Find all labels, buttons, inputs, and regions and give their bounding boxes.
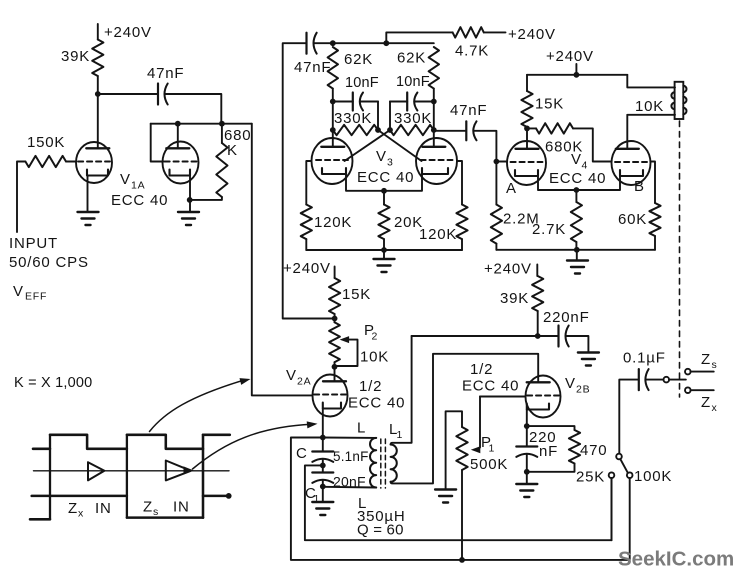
svg-text:10nF: 10nF xyxy=(345,75,379,91)
relay coil 10K xyxy=(675,82,684,119)
wire outer feedback loop xyxy=(291,438,630,560)
wire 39K to plate rail xyxy=(537,311,539,336)
resistor 330K right xyxy=(390,125,434,135)
arrowhead at Zs buffer xyxy=(184,466,194,474)
ground tank xyxy=(312,501,333,503)
svg-text:+240V: +240V xyxy=(546,48,594,65)
svg-text:2.7K: 2.7K xyxy=(532,221,566,238)
svg-text:B: B xyxy=(634,178,645,195)
wire V1B cathode lead xyxy=(189,176,191,213)
svg-text:150K: 150K xyxy=(27,134,65,151)
wiper arrow P2 xyxy=(340,336,350,343)
svg-text:10K: 10K xyxy=(360,349,389,366)
cathode V1B xyxy=(170,170,191,176)
wire P1 top to ground xyxy=(446,411,462,489)
wire V4B grid out xyxy=(651,162,655,204)
wire cross-couple to right grid xyxy=(378,130,422,161)
svg-text:A: A xyxy=(506,180,517,197)
resistor 20K xyxy=(378,205,389,240)
wire node to C xyxy=(322,438,324,452)
node 330K left end xyxy=(330,127,336,133)
arrow curve to V2A cathode xyxy=(193,424,312,469)
svg-text:+240V: +240V xyxy=(104,24,152,41)
wire V4A plate lead xyxy=(526,128,528,149)
terminal output pole xyxy=(664,377,670,383)
svg-text:2: 2 xyxy=(372,331,379,343)
wire grid tie of V1B xyxy=(151,124,164,162)
wire V3 top rail xyxy=(333,42,434,44)
wire cathode node to 20K xyxy=(383,191,385,205)
capacitor 47nF (V3 to V4) xyxy=(465,121,467,140)
svg-text:ECC 40: ECC 40 xyxy=(111,192,168,209)
node 4.7K tap xyxy=(383,40,389,46)
wire 220nF to ground xyxy=(566,336,589,353)
wire C to C1 xyxy=(322,459,324,473)
node plate V1A junction xyxy=(95,91,101,97)
ground P1 xyxy=(435,488,456,490)
svg-text:60K: 60K xyxy=(618,211,647,228)
wire cathode to 470 xyxy=(527,426,575,430)
wire plate node to 680K xyxy=(527,127,536,129)
resistor 39K (V1A plate load) xyxy=(92,40,103,77)
capacitor 0.1uF xyxy=(638,369,640,390)
svg-text:15K: 15K xyxy=(535,96,564,113)
resistor 15K (V4) xyxy=(521,91,532,127)
arrow curve to V2A grid xyxy=(150,380,244,431)
cathode V2B xyxy=(527,404,549,410)
wire left plate drop xyxy=(332,102,334,131)
svg-text:1: 1 xyxy=(489,443,496,455)
svg-text:+240V: +240V xyxy=(508,26,556,43)
node 62K left top xyxy=(330,40,336,46)
svg-text:K: K xyxy=(227,142,238,159)
resistor 120K left xyxy=(301,205,312,240)
svg-text:INPUT: INPUT xyxy=(9,235,58,252)
wire plate node to C 47nF xyxy=(98,93,158,95)
svg-text:100K: 100K xyxy=(634,468,672,485)
svg-text:1/2: 1/2 xyxy=(359,378,382,395)
svg-text:Z: Z xyxy=(701,351,711,368)
wire 62K-left to plate node xyxy=(332,89,334,102)
wire cap to ground node xyxy=(526,454,528,472)
terminal switch pole S1 xyxy=(616,454,622,460)
svg-text:ECC 40: ECC 40 xyxy=(348,395,405,412)
capacitor 220nF (cathode) xyxy=(516,445,537,447)
resistor 680K (V4) xyxy=(536,123,573,133)
resistor 62K right xyxy=(429,47,439,89)
wire relay feed top xyxy=(627,75,675,88)
wire V4 bottom rail xyxy=(496,249,655,251)
resistor 4.7K xyxy=(453,27,484,37)
svg-text:L: L xyxy=(357,420,366,437)
svg-text:10K: 10K xyxy=(635,98,664,115)
terminal Zs contact xyxy=(685,369,691,375)
wire plate node down to V1A plate xyxy=(97,94,99,148)
wire 25K contact drop xyxy=(611,478,613,540)
ground V1B xyxy=(178,211,199,213)
svg-text:V: V xyxy=(13,283,24,300)
svg-text:V: V xyxy=(120,171,131,188)
svg-text:470: 470 xyxy=(580,442,607,459)
resistor 39K (V2B) xyxy=(532,276,543,311)
svg-text:1: 1 xyxy=(314,493,321,505)
svg-text:Z: Z xyxy=(68,500,78,517)
capacitor 47nF (V1 coupling) xyxy=(157,84,159,105)
svg-text:V: V xyxy=(376,148,387,165)
wire V4B plate lead xyxy=(626,115,628,149)
tube V3 left triode xyxy=(312,138,353,184)
svg-text:IN: IN xyxy=(173,499,190,516)
wire output riser xyxy=(619,380,638,454)
tube V2B half triode xyxy=(526,376,561,418)
wire relay coil bottom to plate xyxy=(627,114,675,116)
cathode V2A xyxy=(323,403,341,409)
svg-text:C: C xyxy=(296,445,308,462)
wire V1B out to V2A grid xyxy=(252,124,312,396)
svg-text:V: V xyxy=(565,375,576,392)
svg-text:SeekIC.com: SeekIC.com xyxy=(618,548,734,571)
resistor 2.7K xyxy=(571,202,582,242)
node V3 left plate/10nF xyxy=(330,99,336,105)
node P1 bottom on loop xyxy=(459,557,465,563)
capacitor 47nF (feedback, top left) xyxy=(305,33,307,54)
wire P1 bottom xyxy=(461,470,463,560)
svg-text:15K: 15K xyxy=(342,286,371,303)
wire V2A cathode lead xyxy=(322,409,324,438)
wire Zs lead xyxy=(691,371,714,373)
wire V4 +240V rail xyxy=(527,74,627,76)
tube V4A triode xyxy=(507,141,546,185)
svg-text:47nF: 47nF xyxy=(147,65,184,82)
node V1B plate junction xyxy=(175,121,181,127)
resistor 62K left xyxy=(328,47,338,89)
wire right plate drop xyxy=(433,102,435,131)
resistor 150K (input) xyxy=(25,156,66,167)
ground V2B cathode xyxy=(516,483,537,485)
node 330K right end xyxy=(431,127,437,133)
cathode V4B xyxy=(620,170,643,176)
node V4A plate xyxy=(524,125,530,131)
waveform lower square wave xyxy=(32,496,228,518)
wire 680K bottom to cathode node xyxy=(190,197,222,200)
node V3 cathodes xyxy=(381,188,387,194)
svg-text:330K: 330K xyxy=(394,110,432,127)
svg-text:2A: 2A xyxy=(297,376,311,388)
ground V4 xyxy=(567,259,588,261)
wire 15K to plate node xyxy=(526,127,528,128)
inductor L1 xyxy=(391,445,397,482)
capacitor 220nF (decoupling) xyxy=(557,326,559,347)
node V2B cathode xyxy=(524,423,530,429)
wire V4A cathode xyxy=(538,176,576,190)
resistor 120K right xyxy=(456,205,467,240)
resistor 60K xyxy=(649,203,660,236)
svg-text:K = X 1,000: K = X 1,000 xyxy=(14,375,92,391)
wire L1 top to 39K rail xyxy=(391,336,412,445)
ground V1A xyxy=(78,211,99,213)
svg-text:39K: 39K xyxy=(61,48,90,65)
wire V3 left grid out xyxy=(306,161,311,205)
wire V3 bottom rail xyxy=(306,249,462,251)
wire cathode to cap xyxy=(526,426,528,446)
wire L1 bottom to V2B plate xyxy=(391,354,539,484)
wire to V3 ground xyxy=(383,250,385,259)
wire V4B cathode xyxy=(576,176,620,190)
node P2 bottom / V2A plate xyxy=(332,364,338,370)
terminal 100K contact xyxy=(627,472,633,478)
wire P2 top lead xyxy=(334,319,336,323)
terminal Zx contact xyxy=(685,387,691,393)
node 330K right / 10nF junction xyxy=(387,127,393,133)
svg-text:47nF: 47nF xyxy=(294,59,331,76)
wire rail to 15K xyxy=(526,75,528,91)
svg-text:50/60 CPS: 50/60 CPS xyxy=(9,254,89,271)
ground V3 xyxy=(374,258,395,260)
wire V3 right cathode xyxy=(384,174,422,191)
resistor 2.2M xyxy=(491,205,502,244)
cathode V3 left xyxy=(322,168,346,174)
wire 47nF to V1B top rail xyxy=(165,94,222,124)
wire V3 right plate lead xyxy=(433,130,435,147)
svg-text:Q = 60: Q = 60 xyxy=(357,522,404,539)
wire V1A cathode to ground xyxy=(87,176,89,213)
svg-text:0.1µF: 0.1µF xyxy=(623,350,666,367)
wire V4 ground lead xyxy=(576,250,578,261)
svg-text:62K: 62K xyxy=(344,51,373,68)
node L bottom xyxy=(320,484,326,490)
capacitor 10nF right xyxy=(406,93,408,111)
wire 680K to V4B grid xyxy=(573,128,611,161)
capacitor C1 20nF xyxy=(312,471,333,473)
svg-text:47nF: 47nF xyxy=(450,102,487,119)
wire output blade xyxy=(669,379,686,381)
wire rail to 220nF xyxy=(538,335,559,337)
svg-text:120K: 120K xyxy=(419,226,457,243)
potentiometer P1 500K body xyxy=(456,427,467,470)
cathode V4A xyxy=(515,170,538,176)
svg-text:39K: 39K xyxy=(500,290,529,307)
node V4A grid xyxy=(494,159,500,165)
svg-text:2B: 2B xyxy=(576,384,590,396)
svg-text:IN: IN xyxy=(95,500,112,517)
node V1B cathode junction xyxy=(187,197,193,203)
node V2B cathode ground xyxy=(524,469,530,475)
capacitor C 5.1nF xyxy=(312,450,333,452)
tube V4B triode xyxy=(612,141,651,185)
svg-text:x: x xyxy=(78,508,84,520)
wire V3 right grid out xyxy=(457,161,462,205)
resistor 330K left xyxy=(333,125,378,135)
ground 220nF decoupling xyxy=(578,351,599,353)
wire +240V supply stub to R 39K xyxy=(97,24,99,40)
svg-text:20K: 20K xyxy=(394,214,423,231)
svg-text:25K: 25K xyxy=(576,469,605,486)
waveform gate box verticals xyxy=(49,435,51,520)
wire input lead xyxy=(17,162,25,233)
wire C1 bottom to ground xyxy=(322,480,324,502)
core dashes xyxy=(380,439,382,488)
wire 15K to P2 node xyxy=(334,314,336,319)
svg-text:V: V xyxy=(286,367,297,384)
wire plate rail to L1 xyxy=(412,335,538,337)
buffer triangle Zs xyxy=(166,461,191,481)
wire 4.7K to +240V xyxy=(484,31,506,33)
wire 470 bottom xyxy=(527,464,575,472)
svg-text:1/2: 1/2 xyxy=(470,361,493,378)
wire V3 left plate lead xyxy=(332,130,334,147)
svg-text:s: s xyxy=(712,359,718,371)
node V3 right plate/10nF xyxy=(431,99,437,105)
svg-text:10nF: 10nF xyxy=(396,74,430,90)
svg-text:nF: nF xyxy=(539,443,558,460)
wire 10nF-left leads xyxy=(333,101,353,103)
svg-text:+240V: +240V xyxy=(484,261,532,278)
waveform lower-left stub xyxy=(30,518,50,521)
svg-text:ECC 40: ECC 40 xyxy=(357,169,414,186)
svg-text:Z: Z xyxy=(701,394,711,411)
inductor L xyxy=(370,438,376,488)
svg-text:330K: 330K xyxy=(334,110,372,127)
svg-text:V: V xyxy=(571,151,582,168)
svg-text:500K: 500K xyxy=(470,456,508,473)
svg-text:5.1nF: 5.1nF xyxy=(333,449,369,464)
node V4 cathodes xyxy=(574,187,580,193)
wire 680K top lead xyxy=(221,124,223,143)
wire V4A grid to 2.2M xyxy=(495,162,497,205)
svg-text:120K: 120K xyxy=(314,214,352,231)
capacitor 10nF left xyxy=(352,93,354,111)
wire switch blade S1 xyxy=(620,459,628,473)
buffer triangle Zx xyxy=(88,462,104,480)
wire +240V stub (V2A) xyxy=(334,267,336,279)
svg-text:1A: 1A xyxy=(131,180,145,192)
node 330K left / 10nF junction xyxy=(375,127,381,133)
wire V4A grid in xyxy=(496,161,506,163)
node V3 ground rail xyxy=(381,247,387,253)
wire dashed relay linkage xyxy=(679,121,681,397)
wire tank top lead xyxy=(323,437,376,439)
tube V3 right triode xyxy=(416,138,457,184)
wire signal center line xyxy=(34,470,230,472)
tube V1A triode xyxy=(76,142,112,183)
wire V1B plate lead xyxy=(177,124,179,148)
resistor 470 xyxy=(569,430,580,464)
wire P2 bottom lead xyxy=(334,362,336,367)
wire +240V stub (V4) xyxy=(575,64,577,75)
terminal 25K contact xyxy=(609,472,615,478)
wire cathodes to 2.7K xyxy=(575,190,577,202)
resistor 15K (V2A) xyxy=(329,278,340,314)
resistor 680K (V1B) xyxy=(216,143,227,197)
node V4 supply xyxy=(574,72,580,78)
wire V2B cathode lead xyxy=(526,410,528,427)
node 680K top junction xyxy=(219,121,225,127)
wire L bottom lead xyxy=(323,486,376,489)
wire 47nF coupling to V4 xyxy=(434,130,466,132)
tube V2A half triode xyxy=(313,375,348,417)
wire 150K to V1A grid xyxy=(66,161,75,163)
cathode V3 right xyxy=(422,168,448,174)
wire 47nF to 62K-left top xyxy=(314,42,333,44)
wire +240V stub (V2B) xyxy=(536,265,538,277)
tube V1B triode xyxy=(163,142,199,184)
wire V2A plate lead xyxy=(334,367,336,382)
wire inner loop (C tap) xyxy=(305,465,612,540)
svg-text:x: x xyxy=(712,402,718,414)
node C C1 mid xyxy=(320,463,326,469)
wire 39K to plate node xyxy=(97,76,99,94)
svg-text:3: 3 xyxy=(387,157,394,169)
wire Zx lead xyxy=(691,389,714,391)
wire 10nF-right leads xyxy=(414,101,433,103)
svg-text:4.7K: 4.7K xyxy=(455,43,489,60)
node V4 ground xyxy=(574,247,580,253)
potentiometer P2 10K body xyxy=(329,322,340,362)
svg-text:s: s xyxy=(153,506,159,518)
wire 47nF to V4A grid xyxy=(474,131,497,162)
wire 0.1uF to pole xyxy=(646,379,664,381)
wire left feedback rail xyxy=(283,43,332,318)
svg-text:220nF: 220nF xyxy=(543,309,590,326)
svg-text:Z: Z xyxy=(143,499,153,516)
wire to V2B ground xyxy=(526,472,528,484)
wire 62K-right to plate node xyxy=(433,89,435,102)
waveform upper square wave xyxy=(33,435,230,449)
svg-text:EFF: EFF xyxy=(25,291,47,303)
node lower wave end xyxy=(226,493,232,499)
node feedback tap xyxy=(332,316,338,322)
wire cross-couple to left grid xyxy=(345,130,391,161)
svg-text:ECC 40: ECC 40 xyxy=(462,378,519,395)
wire V3 left cathode xyxy=(346,174,384,191)
wire 4.7K feed xyxy=(386,32,452,43)
svg-text:1: 1 xyxy=(397,429,404,441)
node V2B supply rail xyxy=(535,333,541,339)
svg-text:ECC 40: ECC 40 xyxy=(549,170,606,187)
node V2A cathode tank xyxy=(320,435,326,441)
wire V1B top rail xyxy=(151,123,252,125)
cathode V1A xyxy=(87,170,108,176)
svg-text:62K: 62K xyxy=(397,50,426,67)
wiper arrow P1 xyxy=(471,446,481,453)
svg-text:+240V: +240V xyxy=(283,260,331,277)
wire V2B grid in xyxy=(480,396,525,398)
